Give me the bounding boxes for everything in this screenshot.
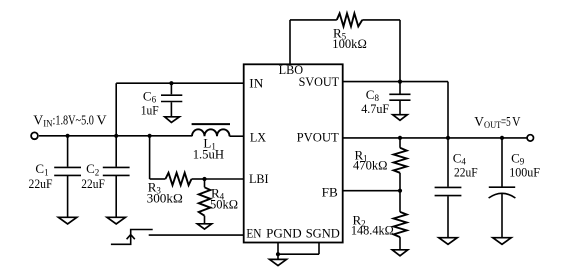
capacitor C1 bbox=[54, 136, 81, 218]
resistor R4 bbox=[199, 179, 211, 224]
capacitor C9 (polarized) bbox=[489, 138, 516, 238]
node C1 rail bbox=[66, 134, 70, 138]
wire IN line bbox=[116, 82, 244, 84]
svg-text:100kΩ: 100kΩ bbox=[332, 36, 367, 51]
ground (C9) bbox=[493, 238, 511, 245]
svg-text:V: V bbox=[512, 114, 521, 129]
wire FB bbox=[343, 190, 400, 192]
svg-text:22uF: 22uF bbox=[81, 176, 105, 191]
capacitor C6 bbox=[161, 83, 182, 117]
node R3 rail bbox=[148, 134, 152, 138]
svg-text:22uF: 22uF bbox=[454, 164, 478, 179]
inductor L1 bar bbox=[192, 123, 230, 125]
input terminal circle bbox=[31, 132, 38, 139]
wire PGND stem bbox=[277, 243, 279, 255]
wire SVOUT link down to output rail bbox=[447, 82, 449, 138]
resistor R2 bbox=[394, 191, 407, 250]
ground (PGND/SGND) bbox=[270, 254, 287, 265]
node C9 on rail bbox=[500, 136, 504, 140]
svg-text:=5: =5 bbox=[501, 114, 511, 129]
label VOUT=5V bbox=[474, 114, 520, 130]
ground (C8) bbox=[393, 115, 408, 121]
svg-text:1.5uH: 1.5uH bbox=[193, 147, 224, 162]
svg-text:148.4kΩ: 148.4kΩ bbox=[351, 222, 394, 237]
svg-text:V: V bbox=[33, 112, 43, 127]
wire EN bbox=[149, 234, 244, 236]
svg-text:SVOUT: SVOUT bbox=[299, 74, 339, 89]
svg-text:PGND: PGND bbox=[266, 225, 302, 240]
resistor R1 bbox=[394, 138, 407, 191]
node C4 on rail bbox=[446, 136, 450, 140]
svg-text:OUT: OUT bbox=[484, 120, 502, 130]
node SVOUT/C8 bbox=[398, 80, 402, 84]
node PGND join bbox=[276, 252, 280, 256]
svg-text:FB: FB bbox=[322, 184, 338, 199]
node C6 on IN line bbox=[169, 81, 173, 85]
wire LBO up bbox=[289, 20, 291, 64]
svg-text:22uF: 22uF bbox=[29, 176, 53, 191]
svg-text:4.7uF: 4.7uF bbox=[361, 101, 389, 116]
wire rail down to R3 bbox=[149, 136, 151, 179]
ground (C1) bbox=[58, 217, 76, 224]
label VIN:1.8V~5.0V bbox=[33, 112, 107, 128]
wire PVOUT output rail bbox=[343, 137, 527, 139]
svg-text::1.8V~5.0: :1.8V~5.0 bbox=[53, 112, 95, 127]
svg-text:PVOUT: PVOUT bbox=[297, 130, 339, 145]
node R1 top on rail bbox=[398, 136, 402, 140]
capacitor C4 bbox=[435, 138, 462, 238]
svg-text:50kΩ: 50kΩ bbox=[210, 196, 238, 211]
svg-text:470kΩ: 470kΩ bbox=[353, 158, 388, 173]
node FB/R1/R2 bbox=[398, 189, 402, 193]
IC U1 box bbox=[244, 64, 343, 242]
wire rail up to IN line bbox=[115, 83, 117, 136]
wire LBI bbox=[205, 178, 244, 180]
enable step signal symbol bbox=[111, 230, 153, 245]
capacitor C8 bbox=[389, 82, 410, 115]
resistor R5 bbox=[290, 13, 400, 26]
svg-text:300kΩ: 300kΩ bbox=[147, 190, 183, 205]
svg-text:EN: EN bbox=[246, 225, 262, 240]
ground (C4) bbox=[439, 238, 457, 245]
wire SGND stem bbox=[318, 243, 320, 255]
svg-text:100uF: 100uF bbox=[509, 164, 540, 179]
inductor L1 loops bbox=[192, 129, 230, 136]
svg-text:V: V bbox=[474, 114, 484, 129]
svg-text:SGND: SGND bbox=[306, 225, 340, 240]
svg-text:LBI: LBI bbox=[249, 171, 269, 186]
wire SVOUT bbox=[343, 81, 448, 83]
node LBI/R4 bbox=[202, 177, 206, 181]
resistor R3 bbox=[150, 173, 205, 185]
wire LX segment bbox=[230, 135, 244, 137]
svg-text:V: V bbox=[97, 112, 107, 127]
svg-text:LX: LX bbox=[250, 130, 267, 145]
svg-text:IN: IN bbox=[249, 76, 264, 91]
ground (C6) bbox=[165, 117, 180, 123]
ground (C2) bbox=[107, 217, 125, 224]
wire input rail bbox=[39, 135, 192, 137]
svg-text:1uF: 1uF bbox=[141, 103, 159, 118]
ground (R2) bbox=[392, 250, 408, 256]
ground (R4) bbox=[197, 224, 211, 229]
node C2 rail bbox=[114, 134, 118, 138]
wire R5 right down to SVOUT bbox=[399, 20, 401, 82]
output terminal circle bbox=[527, 135, 533, 141]
capacitor C2 bbox=[103, 136, 130, 218]
wire PGND-SGND join bbox=[278, 253, 319, 255]
